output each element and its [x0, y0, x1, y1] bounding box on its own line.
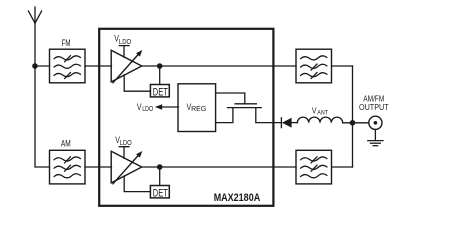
svg-text:AM: AM: [61, 139, 71, 149]
svg-text:MAX2180A: MAX2180A: [214, 192, 261, 204]
svg-text:DET: DET: [153, 187, 168, 199]
svg-text:FM: FM: [62, 38, 71, 48]
svg-text:ANT: ANT: [317, 109, 328, 116]
svg-text:LDO: LDO: [119, 39, 132, 46]
svg-text:DET: DET: [153, 86, 168, 98]
svg-text:LDO: LDO: [120, 140, 133, 147]
svg-text:LDO: LDO: [142, 106, 153, 113]
svg-text:V: V: [312, 105, 317, 115]
svg-text:REG: REG: [191, 104, 207, 113]
svg-text:OUTPUT: OUTPUT: [359, 102, 389, 112]
